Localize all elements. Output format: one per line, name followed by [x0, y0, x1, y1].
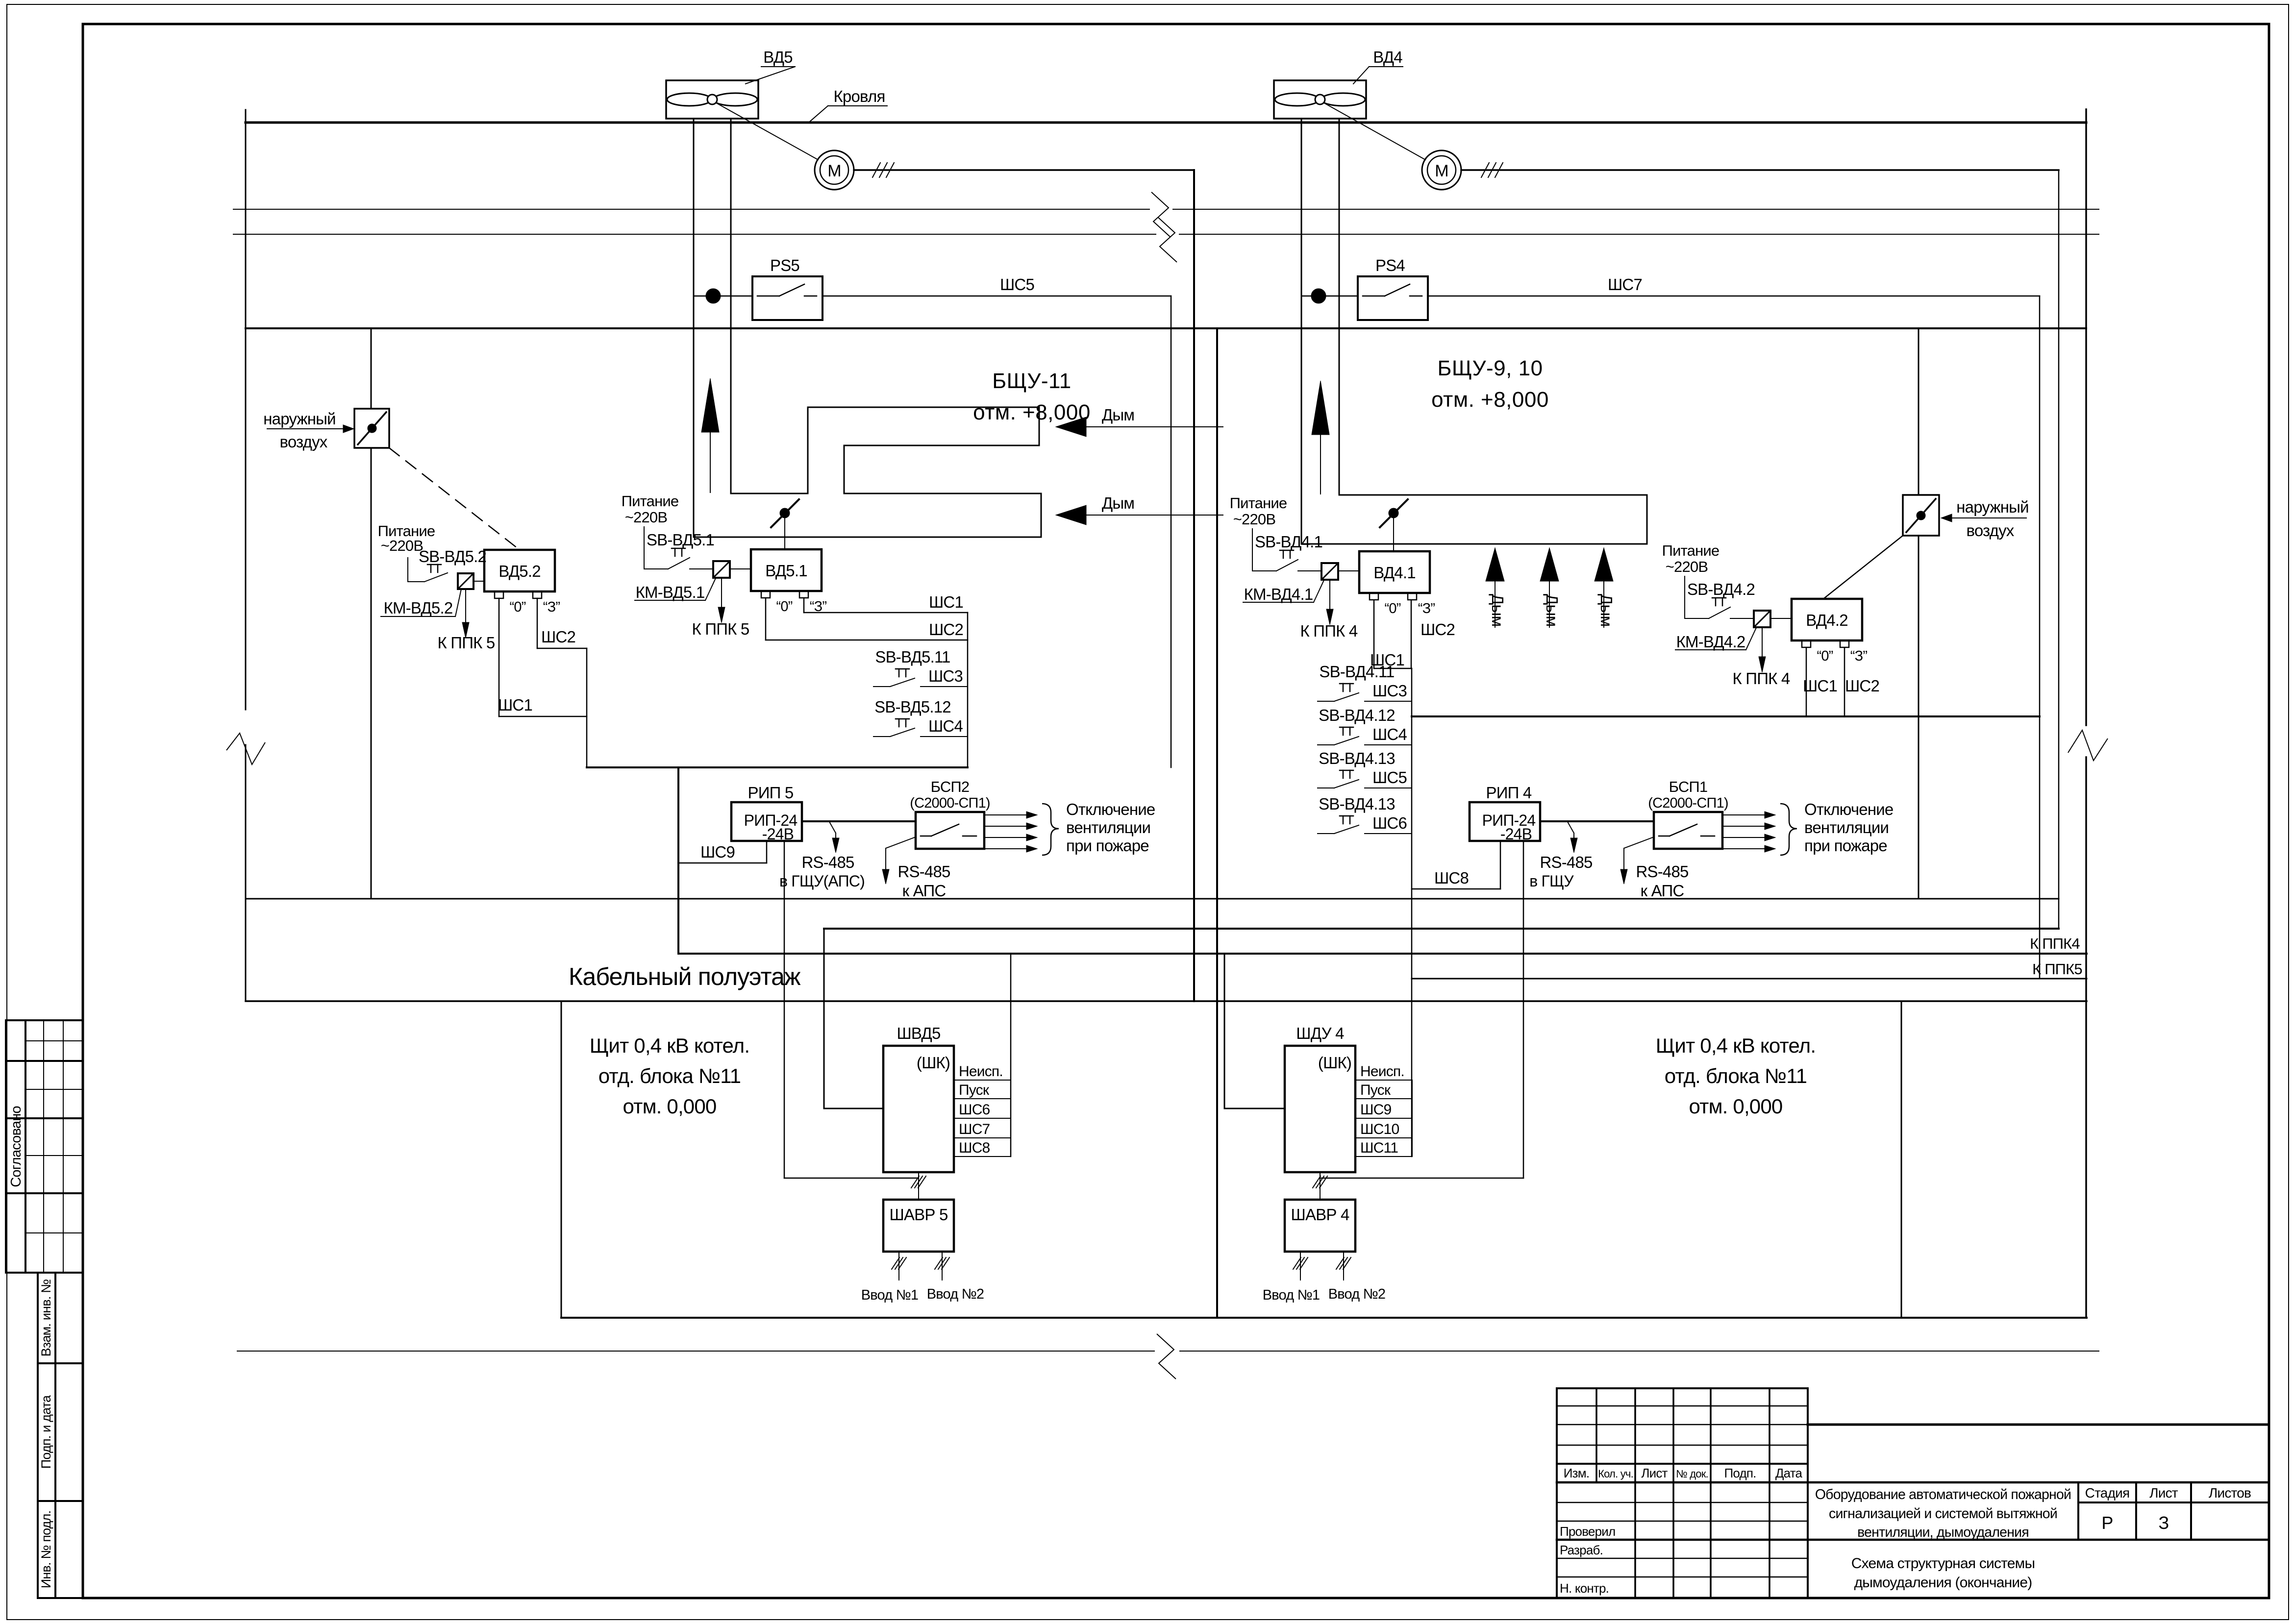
svg-text:ШС4: ШС4: [928, 717, 963, 735]
svg-text:“З”: “З”: [1850, 648, 1868, 664]
svg-text:ШС2: ШС2: [1421, 620, 1455, 639]
svg-text:(С2000-СП1): (С2000-СП1): [910, 795, 990, 811]
svg-text:-24В: -24В: [762, 825, 794, 843]
svg-text:~220В: ~220В: [1233, 511, 1276, 528]
svg-text:ВД4.1: ВД4.1: [1373, 564, 1416, 582]
svg-text:воздух: воздух: [1966, 521, 2014, 540]
svg-text:ШС3: ШС3: [928, 667, 963, 685]
svg-text:ШС2: ШС2: [1845, 677, 1879, 695]
svg-text:Оборудование автоматической по: Оборудование автоматической пожарной: [1815, 1487, 2071, 1502]
svg-text:БСП1: БСП1: [1669, 778, 1708, 795]
svg-text:ШВД5: ШВД5: [897, 1024, 940, 1042]
svg-text:ШС7: ШС7: [959, 1121, 990, 1137]
svg-text:“0”: “0”: [509, 599, 525, 615]
svg-text:ШС9: ШС9: [1360, 1102, 1392, 1118]
svg-text:Разраб.: Разраб.: [1560, 1543, 1603, 1557]
svg-text:КМ-ВД5.1: КМ-ВД5.1: [636, 583, 705, 601]
svg-text:SB-ВД5.12: SB-ВД5.12: [874, 698, 951, 716]
svg-text:ШС4: ШС4: [1372, 725, 1407, 743]
svg-text:Согласовано: Согласовано: [8, 1106, 24, 1187]
svg-text:К ППК 4: К ППК 4: [1300, 622, 1358, 640]
svg-text:ШС10: ШС10: [1360, 1121, 1399, 1137]
svg-text:SB-ВД5.11: SB-ВД5.11: [875, 648, 950, 666]
svg-text:БЩУ-9, 10: БЩУ-9, 10: [1437, 356, 1543, 380]
svg-text:КМ-ВД4.2: КМ-ВД4.2: [1676, 633, 1745, 651]
svg-text:ВД4.2: ВД4.2: [1806, 611, 1848, 629]
svg-text:(ШК): (ШК): [1318, 1054, 1351, 1072]
svg-text:-24В: -24В: [1500, 825, 1532, 843]
svg-text:Неисп.: Неисп.: [1360, 1063, 1404, 1080]
svg-text:К ППК 4: К ППК 4: [1733, 669, 1790, 688]
svg-text:ШС8: ШС8: [1434, 869, 1469, 887]
svg-text:PS5: PS5: [770, 256, 799, 274]
svg-text:Р: Р: [2101, 1513, 2113, 1533]
svg-text:Питание: Питание: [1662, 542, 1720, 559]
svg-text:Ввод №2: Ввод №2: [1328, 1286, 1386, 1302]
svg-text:РИП 5: РИП 5: [748, 784, 794, 802]
svg-text:Неисп.: Неисп.: [959, 1063, 1003, 1080]
svg-text:воздух: воздух: [279, 433, 327, 451]
svg-text:SB-ВД4.13: SB-ВД4.13: [1319, 795, 1395, 813]
svg-text:отм. 0,000: отм. 0,000: [623, 1095, 717, 1118]
svg-text:ВД5.2: ВД5.2: [498, 562, 541, 580]
svg-text:ВД5: ВД5: [763, 48, 793, 66]
svg-text:Взам. инв. №: Взам. инв. №: [39, 1280, 53, 1357]
svg-text:вентиляции: вентиляции: [1066, 818, 1150, 837]
svg-text:сигнализацией и системой вытяж: сигнализацией и системой вытяжной: [1829, 1506, 2057, 1522]
svg-text:SB-ВД4.2: SB-ВД4.2: [1687, 580, 1755, 598]
svg-text:Подп.: Подп.: [1724, 1466, 1756, 1480]
svg-text:PS4: PS4: [1375, 256, 1405, 274]
svg-text:ВД4: ВД4: [1373, 48, 1402, 66]
svg-text:РИП 4: РИП 4: [1486, 784, 1532, 802]
svg-text:М: М: [1435, 162, 1448, 180]
svg-text:наружный: наружный: [263, 410, 335, 428]
svg-text:К ППК 5: К ППК 5: [438, 634, 495, 652]
svg-text:БЩУ-11: БЩУ-11: [992, 369, 1071, 393]
svg-text:Листов: Листов: [2209, 1485, 2251, 1501]
svg-text:ШС6: ШС6: [959, 1102, 990, 1118]
svg-text:М: М: [827, 162, 841, 180]
svg-text:к АПС: к АПС: [902, 882, 946, 900]
svg-text:Щит 0,4 кВ котел.: Щит 0,4 кВ котел.: [1656, 1034, 1816, 1057]
svg-text:в ГЩУ: в ГЩУ: [1529, 872, 1574, 890]
svg-text:SB-ВД4.1: SB-ВД4.1: [1255, 533, 1322, 551]
svg-text:Дым: Дым: [1489, 594, 1507, 626]
svg-text:Пуск: Пуск: [959, 1082, 990, 1098]
svg-text:отм. +8,000: отм. +8,000: [973, 400, 1091, 424]
svg-text:наружный: наружный: [1956, 498, 2028, 516]
svg-text:вентиляции: вентиляции: [1804, 818, 1889, 837]
svg-text:SB-ВД4.12: SB-ВД4.12: [1319, 706, 1395, 724]
svg-text:З: З: [2159, 1513, 2169, 1533]
svg-text:Отключение: Отключение: [1066, 800, 1155, 818]
svg-text:Н. контр.: Н. контр.: [1560, 1581, 1609, 1596]
svg-text:К ППК5: К ППК5: [2032, 960, 2082, 978]
svg-text:RS-485: RS-485: [801, 853, 854, 871]
svg-text:SB-ВД4.11: SB-ВД4.11: [1319, 663, 1394, 681]
svg-text:Дым: Дым: [1102, 406, 1134, 424]
svg-text:БСП2: БСП2: [931, 778, 970, 795]
svg-text:“0”: “0”: [1384, 601, 1400, 616]
svg-text:№ док.: № док.: [1676, 1468, 1708, 1480]
svg-text:Отключение: Отключение: [1804, 800, 1893, 818]
svg-text:RS-485: RS-485: [1540, 853, 1592, 871]
svg-text:ШДУ 4: ШДУ 4: [1296, 1024, 1344, 1042]
svg-text:~220В: ~220В: [625, 509, 668, 526]
svg-text:КМ-ВД4.1: КМ-ВД4.1: [1244, 585, 1313, 603]
svg-text:“0”: “0”: [1817, 648, 1833, 664]
svg-text:“З”: “З”: [1418, 601, 1435, 616]
svg-text:Схема структурная системы: Схема структурная системы: [1851, 1555, 2035, 1572]
svg-text:ШС5: ШС5: [1372, 768, 1407, 787]
svg-text:Дым: Дым: [1102, 494, 1134, 512]
svg-text:“0”: “0”: [776, 599, 792, 615]
svg-text:вентиляции, дымоудаления: вентиляции, дымоудаления: [1857, 1525, 2029, 1540]
svg-text:Дым: Дым: [1543, 594, 1561, 626]
svg-text:ШС1: ШС1: [1803, 677, 1837, 695]
svg-text:ШС3: ШС3: [1372, 682, 1407, 700]
svg-text:дымоудаления (окончание): дымоудаления (окончание): [1854, 1575, 2032, 1591]
svg-text:Пуск: Пуск: [1360, 1082, 1391, 1098]
svg-text:SB-ВД5.1: SB-ВД5.1: [647, 531, 714, 549]
svg-text:Проверил: Проверил: [1560, 1524, 1615, 1539]
svg-text:(С2000-СП1): (С2000-СП1): [1648, 795, 1728, 811]
svg-text:КМ-ВД5.2: КМ-ВД5.2: [384, 599, 453, 617]
svg-text:Щит 0,4 кВ котел.: Щит 0,4 кВ котел.: [590, 1034, 749, 1057]
svg-text:~220В: ~220В: [1666, 558, 1708, 575]
svg-text:К ППК4: К ППК4: [2030, 935, 2080, 952]
svg-text:~220В: ~220В: [381, 537, 424, 554]
svg-text:Подп. и дата: Подп. и дата: [39, 1395, 53, 1469]
svg-text:ШАВР 4: ШАВР 4: [1291, 1206, 1349, 1224]
svg-text:отд. блока №11: отд. блока №11: [598, 1064, 741, 1087]
svg-text:в ГЩУ(АПС): в ГЩУ(АПС): [779, 872, 865, 890]
svg-text:при пожаре: при пожаре: [1804, 837, 1887, 855]
svg-text:отд. блока №11: отд. блока №11: [1665, 1064, 1807, 1087]
svg-text:Лист: Лист: [2149, 1485, 2178, 1501]
svg-text:Питание: Питание: [622, 492, 679, 510]
svg-text:Кол. уч.: Кол. уч.: [1598, 1468, 1633, 1480]
svg-text:при пожаре: при пожаре: [1066, 837, 1149, 855]
svg-text:Инв. № подл.: Инв. № подл.: [39, 1511, 53, 1589]
svg-text:К ППК 5: К ППК 5: [692, 620, 749, 638]
svg-text:SB-ВД4.13: SB-ВД4.13: [1319, 749, 1395, 767]
svg-text:Лист: Лист: [1641, 1466, 1668, 1480]
svg-text:ШС8: ШС8: [959, 1140, 990, 1156]
svg-text:ШС7: ШС7: [1608, 275, 1642, 294]
svg-text:Изм.: Изм.: [1564, 1466, 1590, 1480]
svg-text:Стадия: Стадия: [2085, 1485, 2130, 1501]
svg-text:Ввод №1: Ввод №1: [1263, 1287, 1320, 1303]
svg-text:ШС5: ШС5: [1000, 275, 1034, 294]
svg-text:Кровля: Кровля: [833, 87, 885, 105]
svg-text:ШС2: ШС2: [541, 628, 575, 646]
svg-text:Ввод №2: Ввод №2: [927, 1286, 984, 1302]
svg-text:ШАВР 5: ШАВР 5: [890, 1206, 948, 1224]
svg-text:ШС1: ШС1: [498, 696, 532, 714]
svg-text:ШС6: ШС6: [1372, 814, 1407, 832]
svg-text:Дата: Дата: [1775, 1466, 1803, 1480]
svg-text:ШС9: ШС9: [700, 843, 735, 861]
svg-text:ВД5.1: ВД5.1: [765, 562, 807, 580]
svg-text:к АПС: к АПС: [1641, 882, 1684, 900]
svg-text:RS-485: RS-485: [897, 862, 950, 881]
svg-text:Питание: Питание: [1230, 494, 1287, 512]
svg-text:отм. +8,000: отм. +8,000: [1431, 388, 1549, 412]
svg-text:“З”: “З”: [543, 599, 560, 615]
svg-text:Ввод №1: Ввод №1: [861, 1287, 919, 1303]
svg-text:RS-485: RS-485: [1636, 862, 1688, 881]
svg-text:(ШК): (ШК): [917, 1054, 950, 1072]
svg-text:Кабельный полуэтаж: Кабельный полуэтаж: [569, 963, 801, 990]
svg-text:ШС11: ШС11: [1360, 1140, 1398, 1156]
svg-text:отм. 0,000: отм. 0,000: [1689, 1095, 1783, 1118]
svg-text:ШС1: ШС1: [929, 593, 963, 611]
svg-text:ШС2: ШС2: [929, 620, 963, 639]
svg-text:SB-ВД5.2: SB-ВД5.2: [419, 547, 486, 566]
svg-text:Дым: Дым: [1597, 594, 1616, 626]
